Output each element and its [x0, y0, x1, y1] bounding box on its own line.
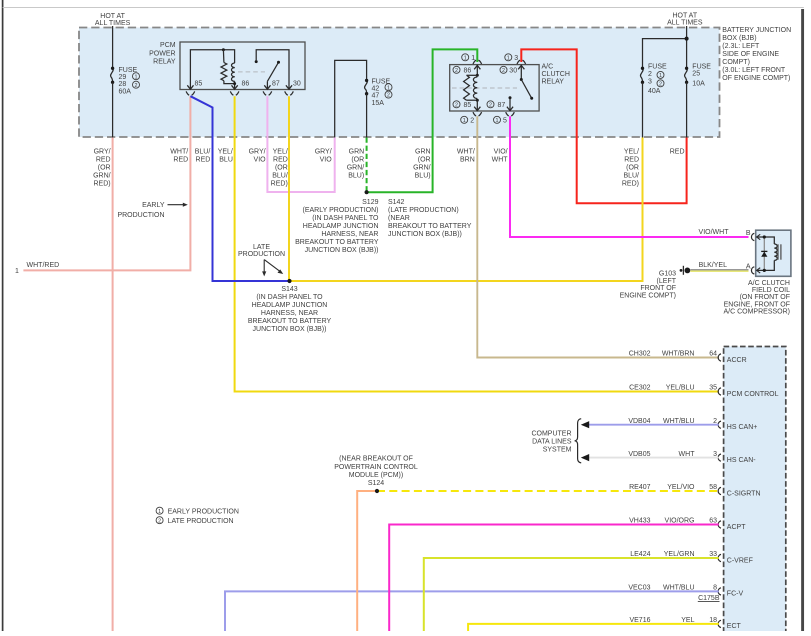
- svg-text:CE302: CE302: [629, 385, 651, 392]
- svg-text:VIO: VIO: [254, 157, 267, 164]
- fuse 2/3 40A: [640, 64, 667, 95]
- svg-text:BLU: BLU: [219, 157, 233, 164]
- label GRN column (S129): [347, 149, 365, 180]
- label EARLY PRODUCTION: [117, 202, 187, 219]
- PCM pin 3 HS CAN- labels: [628, 451, 756, 464]
- svg-text:2: 2: [502, 68, 505, 74]
- svg-text:1: 1: [464, 55, 467, 61]
- svg-text:C175B: C175B: [698, 595, 720, 602]
- svg-text:1: 1: [463, 118, 466, 124]
- label BLU/RED column: [195, 149, 211, 164]
- svg-text:COMPT): COMPT): [722, 59, 750, 66]
- svg-text:RED: RED: [273, 157, 288, 164]
- svg-text:YEL/BLU: YEL/BLU: [666, 385, 695, 392]
- svg-text:RED): RED): [93, 181, 110, 188]
- svg-text:87: 87: [498, 102, 506, 109]
- wire YEL/RED from pin 30: [288, 96, 290, 281]
- note early/late production: [156, 507, 239, 525]
- svg-text:10A: 10A: [692, 81, 705, 88]
- svg-text:FC-V: FC-V: [727, 591, 744, 598]
- wire fuse 25 to BJB edge: [686, 82, 688, 137]
- label S129: [295, 199, 379, 254]
- PCM pin 58 C-SIGRTN labels: [629, 484, 760, 497]
- svg-text:A/C: A/C: [542, 64, 554, 71]
- svg-text:BATTERY JUNCTION: BATTERY JUNCTION: [722, 27, 791, 34]
- node hot feed junction: [685, 37, 689, 41]
- svg-text:85: 85: [195, 81, 203, 88]
- svg-text:BREAKOUT TO BATTERY: BREAKOUT TO BATTERY: [295, 239, 379, 246]
- svg-text:CLUTCH: CLUTCH: [542, 71, 570, 78]
- svg-text:S143: S143: [281, 286, 297, 293]
- svg-text:5: 5: [503, 117, 507, 124]
- svg-text:15A: 15A: [372, 100, 385, 107]
- label GRY/RED: [93, 149, 111, 188]
- svg-text:30: 30: [293, 81, 301, 88]
- svg-text:2: 2: [489, 102, 492, 108]
- node S143: [287, 279, 291, 283]
- svg-text:BLU/: BLU/: [623, 173, 639, 180]
- svg-text:BLU/: BLU/: [195, 149, 211, 156]
- wire hot feed to fuse 29: [112, 26, 114, 68]
- svg-text:A: A: [746, 263, 751, 270]
- svg-text:GRN/: GRN/: [93, 173, 111, 180]
- svg-text:1: 1: [471, 55, 475, 62]
- svg-text:PRODUCTION: PRODUCTION: [238, 251, 285, 258]
- svg-text:ENGINE COMPT): ENGINE COMPT): [620, 293, 676, 300]
- svg-text:S124: S124: [368, 480, 384, 487]
- pin 3 connector: [505, 54, 526, 64]
- svg-text:BLU): BLU): [415, 173, 431, 180]
- wire YEL/RED fuse 2/3 to S143: [290, 138, 643, 282]
- svg-text:BREAKOUT TO BATTERY: BREAKOUT TO BATTERY: [248, 318, 332, 325]
- svg-text:2: 2: [648, 71, 652, 78]
- svg-text:(IN DASH PANEL TO: (IN DASH PANEL TO: [256, 294, 323, 301]
- label WHT/BRN column: [457, 149, 475, 164]
- pin 87 connector: [263, 91, 272, 95]
- label VIO/WHT at field coil: [699, 229, 730, 236]
- svg-text:YEL/: YEL/: [218, 149, 233, 156]
- svg-text:1: 1: [496, 118, 499, 124]
- svg-text:BLK/YEL: BLK/YEL: [699, 262, 728, 269]
- wire YEL/BLU from pin 86: [235, 96, 719, 391]
- label WHT/RED circuit 1: [15, 262, 59, 275]
- svg-text:S129: S129: [362, 199, 378, 206]
- svg-text:RED: RED: [670, 149, 685, 156]
- svg-text:(LATE PRODUCTION): (LATE PRODUCTION): [388, 207, 459, 214]
- svg-text:WHT/: WHT/: [170, 149, 188, 156]
- svg-text:SYSTEM: SYSTEM: [543, 447, 572, 454]
- svg-text:RED): RED): [271, 181, 288, 188]
- svg-text:EARLY: EARLY: [142, 202, 165, 209]
- svg-text:42: 42: [372, 86, 380, 93]
- A/C clutch field coil box: [756, 230, 791, 276]
- svg-text:FUSE: FUSE: [648, 64, 667, 71]
- PCM pin 63 ACPT labels: [629, 518, 746, 531]
- wire WHT/RED from pin 85: [23, 96, 190, 270]
- PCM pin 8 FC-V labels: [628, 585, 743, 598]
- svg-text:BOX (BJB): BOX (BJB): [722, 35, 756, 42]
- pin 5 connector: [494, 112, 515, 124]
- label S142: [388, 199, 472, 238]
- svg-text:(OR: (OR: [275, 165, 288, 172]
- PCM power relay U1: [149, 42, 305, 90]
- label GRY/VIO column (pin 87): [249, 149, 267, 164]
- svg-text:COMPUTER: COMPUTER: [531, 430, 571, 437]
- svg-text:1: 1: [15, 268, 19, 275]
- svg-text:25: 25: [692, 71, 700, 78]
- pin 86 connector: [230, 91, 239, 95]
- svg-text:HOT AT: HOT AT: [100, 13, 125, 20]
- svg-text:(3.0L: LEFT FRONT: (3.0L: LEFT FRONT: [722, 67, 786, 74]
- page right border: [801, 9, 804, 631]
- wire YEL/VIO dashed S124 to C-SIGRTN: [377, 490, 719, 492]
- svg-text:PCM CONTROL: PCM CONTROL: [727, 391, 779, 398]
- wire WHT/BLU FC-V: [225, 591, 719, 631]
- svg-text:FUSE: FUSE: [692, 64, 711, 71]
- label GRY/VIO column (return): [315, 149, 333, 164]
- svg-text:FRONT OF: FRONT OF: [640, 285, 676, 292]
- svg-text:SIDE OF ENGINE: SIDE OF ENGINE: [722, 51, 779, 58]
- svg-text:2: 2: [158, 518, 161, 524]
- svg-text:GRN: GRN: [349, 149, 365, 156]
- svg-text:(NEAR: (NEAR: [388, 215, 410, 222]
- svg-text:A/C COMPRESSOR): A/C COMPRESSOR): [723, 308, 790, 315]
- label S143: [248, 286, 332, 333]
- svg-text:2: 2: [135, 83, 138, 89]
- svg-text:RED: RED: [173, 157, 188, 164]
- label S124: [334, 456, 418, 487]
- svg-text:JUNCTION BOX (BJB)): JUNCTION BOX (BJB)): [305, 247, 379, 254]
- svg-text:3: 3: [514, 55, 518, 62]
- field coil pin A connector: [746, 263, 760, 274]
- svg-text:WHT/RED: WHT/RED: [27, 262, 60, 269]
- svg-text:2: 2: [470, 117, 474, 124]
- svg-text:86: 86: [464, 67, 472, 74]
- svg-text:S142: S142: [388, 199, 404, 206]
- svg-text:(IN DASH PANEL TO: (IN DASH PANEL TO: [312, 215, 379, 222]
- label YEL/BLU column: [218, 149, 233, 164]
- pin 2 connector: [461, 112, 482, 124]
- svg-text:3: 3: [648, 79, 652, 86]
- page left border: [2, 0, 4, 631]
- PCM pin 35 PCM CONTROL labels: [629, 385, 779, 398]
- svg-text:PRODUCTION: PRODUCTION: [117, 212, 164, 219]
- svg-text:POWERTRAIN CONTROL: POWERTRAIN CONTROL: [334, 464, 418, 471]
- wire fuse 42 to BJB edge: [366, 94, 368, 138]
- fuse 25 10A: [685, 64, 712, 88]
- svg-text:FIELD COIL: FIELD COIL: [752, 287, 790, 294]
- PCM pin 33 C-VREF labels: [630, 551, 753, 564]
- PCM pin 18 ECT labels: [629, 617, 741, 630]
- svg-text:1: 1: [135, 74, 138, 80]
- svg-text:2: 2: [659, 81, 662, 87]
- svg-text:(LEFT: (LEFT: [657, 278, 677, 285]
- svg-text:1: 1: [158, 509, 161, 515]
- svg-text:VIO: VIO: [320, 157, 333, 164]
- svg-text:ACPT: ACPT: [727, 524, 746, 531]
- wire WHT/BRN pin 2 to PCM ACCR: [477, 116, 719, 357]
- wire fuse 2/3 to BJB edge: [642, 82, 644, 137]
- svg-text:BLU/: BLU/: [272, 173, 288, 180]
- svg-text:1: 1: [507, 55, 510, 61]
- wire RED pin 3 to fuse 25: [521, 49, 686, 203]
- svg-text:LATE: LATE: [253, 244, 270, 251]
- wire BLK/YEL G103 to field coil: [690, 270, 748, 271]
- svg-text:HEADLAMP JUNCTION: HEADLAMP JUNCTION: [303, 223, 379, 230]
- svg-text:35: 35: [709, 385, 717, 392]
- svg-text:30: 30: [509, 67, 517, 74]
- PCM connector C175B box: [724, 347, 786, 636]
- label YEL/RED column (pin 30): [271, 149, 288, 188]
- svg-text:2: 2: [455, 68, 458, 74]
- pin 1 connector: [462, 54, 482, 64]
- wire WHT/BLU HS CAN+: [581, 421, 719, 428]
- svg-text:WHT/: WHT/: [457, 149, 475, 156]
- wire ORG feeder to S124: [357, 491, 377, 631]
- node S124: [375, 489, 379, 493]
- svg-text:85: 85: [464, 102, 472, 109]
- svg-text:RED: RED: [624, 157, 639, 164]
- svg-text:VIO/: VIO/: [494, 149, 508, 156]
- wire VIO/ORG ACPT: [389, 525, 719, 632]
- wire BLU/RED from pin 85: [190, 96, 289, 281]
- wire WHT HS CAN-: [581, 454, 719, 461]
- fuse 29/28 60A: [111, 67, 140, 96]
- svg-text:40A: 40A: [648, 88, 661, 95]
- wire VIO/WHT pin 5 to field coil: [510, 116, 749, 237]
- svg-text:CH302: CH302: [629, 351, 651, 358]
- label WHT/RED column: [170, 149, 188, 164]
- pin 30 connector: [285, 91, 294, 95]
- wire GRN dashed fuse 42 to S129: [366, 138, 368, 193]
- PCM pin 64 ACCR labels: [629, 351, 747, 364]
- svg-text:YEL/: YEL/: [273, 149, 288, 156]
- svg-text:A/C CLUTCH: A/C CLUTCH: [748, 280, 790, 287]
- label RED column: [670, 149, 685, 156]
- svg-text:JUNCTION BOX (BJB)): JUNCTION BOX (BJB)): [388, 231, 462, 238]
- pin 85 connector: [186, 91, 195, 95]
- field coil diode and coil: [758, 235, 781, 272]
- svg-text:BREAKOUT TO BATTERY: BREAKOUT TO BATTERY: [388, 223, 472, 230]
- wire fuse 29 to BJB edge: [112, 82, 114, 137]
- svg-text:WHT: WHT: [492, 157, 509, 164]
- wire GRY/VIO inside BJB to fuse 42: [335, 60, 367, 137]
- svg-text:(ON FRONT OF: (ON FRONT OF: [740, 294, 790, 301]
- svg-text:ACCR: ACCR: [727, 357, 747, 364]
- svg-text:G103: G103: [659, 270, 676, 277]
- svg-text:B: B: [746, 230, 751, 237]
- svg-text:C-VREF: C-VREF: [727, 557, 753, 564]
- svg-text:HARNESS, NEAR: HARNESS, NEAR: [261, 310, 318, 317]
- svg-text:47: 47: [372, 93, 380, 100]
- svg-text:BLU): BLU): [348, 173, 364, 180]
- svg-text:ECT: ECT: [727, 623, 742, 630]
- svg-text:RED: RED: [96, 157, 111, 164]
- wire GRY/VIO from pin 87: [267, 96, 334, 192]
- svg-text:60A: 60A: [119, 88, 132, 95]
- svg-text:2: 2: [387, 93, 390, 99]
- svg-text:GRN: GRN: [415, 149, 431, 156]
- label A/C clutch field coil: [723, 280, 790, 315]
- svg-text:(OR: (OR: [351, 157, 364, 164]
- svg-text:HOT AT: HOT AT: [672, 13, 697, 20]
- wire branch to fuse 2/3: [643, 39, 687, 69]
- ground G103: [620, 266, 691, 300]
- svg-text:LATE PRODUCTION: LATE PRODUCTION: [168, 518, 234, 525]
- svg-text:(NEAR BREAKOUT OF: (NEAR BREAKOUT OF: [339, 456, 413, 463]
- svg-text:RED): RED): [622, 181, 639, 188]
- svg-text:BRN: BRN: [460, 157, 475, 164]
- svg-text:VIO/WHT: VIO/WHT: [699, 229, 730, 236]
- svg-text:28: 28: [119, 81, 127, 88]
- svg-text:PCM: PCM: [160, 42, 176, 49]
- svg-text:GRN/: GRN/: [413, 165, 431, 172]
- BJB label: [722, 27, 791, 82]
- svg-text:OF ENGINE COMPT): OF ENGINE COMPT): [722, 75, 790, 82]
- svg-text:(2.3L: LEFT: (2.3L: LEFT: [722, 43, 760, 50]
- svg-text:RELAY: RELAY: [542, 79, 565, 86]
- svg-text:RELAY: RELAY: [153, 59, 176, 66]
- wire YEL ECT: [468, 624, 719, 631]
- wire YEL/GRN C-VREF: [424, 558, 719, 631]
- svg-text:ALL TIMES: ALL TIMES: [667, 20, 703, 27]
- field coil pin B connector: [746, 230, 760, 241]
- wire GRY/RED feed: [112, 138, 114, 632]
- svg-text:WHT/BRN: WHT/BRN: [662, 351, 695, 358]
- label GRN column at S142: [413, 149, 431, 180]
- svg-text:MODULE (PCM)): MODULE (PCM)): [349, 472, 403, 479]
- wire right hot feed: [686, 26, 688, 68]
- wire GRN S129 to A/C relay pin 1: [367, 49, 478, 192]
- svg-text:GRY/: GRY/: [315, 149, 332, 156]
- svg-text:(OR: (OR: [98, 165, 111, 172]
- svg-text:(EARLY PRODUCTION): (EARLY PRODUCTION): [303, 207, 379, 214]
- node S129: [365, 190, 369, 194]
- svg-text:ENGINE, FRONT OF: ENGINE, FRONT OF: [724, 301, 790, 308]
- svg-text:POWER: POWER: [149, 50, 175, 57]
- svg-text:DATA LINES: DATA LINES: [532, 438, 572, 445]
- svg-text:YEL/: YEL/: [624, 149, 639, 156]
- svg-text:C-SIGRTN: C-SIGRTN: [727, 490, 761, 497]
- svg-text:HEADLAMP JUNCTION: HEADLAMP JUNCTION: [252, 302, 328, 309]
- page top border: [3, 7, 804, 9]
- svg-text:29: 29: [119, 74, 127, 81]
- svg-text:GRY/: GRY/: [94, 149, 111, 156]
- svg-text:HS CAN+: HS CAN+: [727, 424, 758, 431]
- svg-text:RED: RED: [196, 157, 211, 164]
- label LATE PRODUCTION: [238, 244, 285, 277]
- A/C clutch relay: [450, 64, 570, 112]
- svg-text:GRY/: GRY/: [249, 149, 266, 156]
- label C175B: [698, 595, 720, 602]
- svg-text:86: 86: [242, 81, 250, 88]
- PCM pin 2 HS CAN+ labels: [628, 418, 757, 431]
- svg-text:JUNCTION BOX (BJB)): JUNCTION BOX (BJB)): [253, 326, 327, 333]
- label COMPUTER DATA LINES SYSTEM: [531, 419, 581, 463]
- svg-text:2: 2: [455, 102, 458, 108]
- label VIO/WHT column: [492, 149, 509, 164]
- svg-text:GRN/: GRN/: [347, 165, 365, 172]
- svg-text:(OR: (OR: [418, 157, 431, 164]
- label HOT AT ALL TIMES (right): [667, 13, 703, 27]
- label HOT AT ALL TIMES (left): [95, 13, 131, 27]
- label BLK/YEL: [699, 262, 728, 269]
- svg-text:87: 87: [272, 81, 280, 88]
- fuse 42/47 15A: [365, 78, 392, 107]
- battery junction box (BJB): [79, 28, 720, 138]
- svg-text:(OR: (OR: [626, 165, 639, 172]
- svg-text:1: 1: [659, 73, 662, 79]
- label YEL/RED column (fuse 2/3): [622, 149, 639, 188]
- svg-text:HS CAN-: HS CAN-: [727, 457, 756, 464]
- svg-text:64: 64: [709, 351, 717, 358]
- svg-text:HARNESS, NEAR: HARNESS, NEAR: [321, 231, 378, 238]
- svg-text:1: 1: [387, 85, 390, 91]
- svg-text:EARLY PRODUCTION: EARLY PRODUCTION: [168, 508, 239, 515]
